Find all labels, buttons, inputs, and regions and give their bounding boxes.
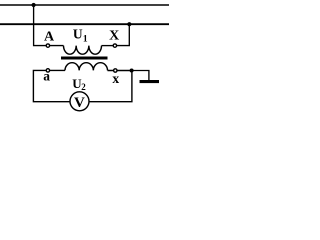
junction: bus L2 tap to primary terminal X: [127, 22, 131, 26]
svg-text:x: x: [112, 71, 119, 86]
terminal a (open circle): [46, 69, 49, 72]
junction: secondary terminal x to earth connection: [130, 69, 134, 73]
wire: junction to earth electrode: [132, 71, 149, 81]
transformer T1 secondary winding (terminals a-x): [65, 63, 108, 71]
svg-text:X: X: [109, 29, 119, 44]
transformer T1 primary winding (terminals A-X): [64, 46, 102, 55]
svg-text:A: A: [44, 29, 55, 44]
terminal X (open circle): [113, 44, 116, 47]
wire: bus line L2 (second phase conductor): [0, 23, 169, 25]
svg-text:V: V: [74, 95, 85, 111]
svg-text:1: 1: [83, 35, 88, 45]
junction: bus L1 tap to primary terminal A: [31, 3, 35, 7]
terminal x (open circle): [114, 69, 117, 72]
earth (ground) bar: [140, 80, 160, 83]
wire: primary winding to terminal X: [102, 45, 114, 47]
wire: bus L1 down and across to terminal A: [34, 5, 47, 46]
voltmeter PV (circle): [70, 92, 89, 111]
wire: bus line L1 (top phase conductor): [0, 4, 169, 6]
terminal A (open circle): [46, 44, 49, 47]
secondary circuit enclosure box: [33, 70, 131, 101]
transformer core: [61, 57, 108, 60]
svg-text:U: U: [73, 27, 83, 42]
svg-text:2: 2: [81, 82, 86, 92]
wire: terminal X up to bus L2: [117, 24, 130, 45]
wire: terminal A to primary winding: [47, 45, 64, 47]
svg-text:a: a: [43, 69, 50, 84]
